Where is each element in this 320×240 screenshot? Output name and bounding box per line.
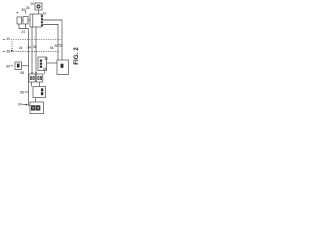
block U6	[57, 60, 69, 75]
block U9	[33, 87, 46, 98]
wire to right rail B	[43, 25, 58, 61]
wire	[35, 77, 36, 79]
wire	[28, 19, 30, 21]
dashed drop wire	[11, 41, 13, 50]
svg-text:34: 34	[27, 45, 31, 49]
wire	[25, 24, 27, 29]
pin 4	[41, 25, 43, 27]
text glyph	[41, 88, 43, 91]
symbol S1	[17, 64, 20, 68]
text glyph	[40, 66, 42, 68]
wire tick	[25, 91, 29, 93]
pin 1	[41, 15, 43, 17]
svg-text:FIG. 2: FIG. 2	[73, 47, 80, 65]
text glyph	[33, 76, 35, 80]
wire vertical V2	[35, 27, 37, 74]
svg-text:58: 58	[20, 71, 24, 75]
svg-text:24: 24	[21, 30, 25, 34]
node dot	[17, 12, 18, 13]
wire	[31, 82, 33, 87]
block U2	[17, 17, 22, 24]
arrow wire	[23, 104, 27, 106]
block U1 divider	[32, 14, 34, 27]
wire	[19, 24, 29, 29]
svg-text:60: 60	[6, 64, 10, 68]
wire	[39, 82, 41, 87]
wire bus left	[29, 29, 31, 106]
wire vertical V1	[31, 27, 33, 74]
block U5	[38, 57, 47, 71]
text glyph	[40, 60, 42, 62]
svg-text:40: 40	[6, 37, 10, 41]
terminal T2	[3, 51, 5, 53]
svg-text:30: 30	[21, 8, 25, 12]
arrowhead	[31, 72, 33, 74]
block U8	[36, 74, 43, 82]
svg-text:28: 28	[26, 6, 30, 10]
svg-text:38: 38	[6, 50, 10, 54]
svg-text:20: 20	[31, 2, 35, 6]
leader dash	[11, 65, 13, 67]
wire	[44, 71, 46, 75]
wire	[47, 62, 58, 64]
wire	[38, 10, 40, 14]
svg-text:44: 44	[19, 46, 23, 50]
block U10	[30, 102, 44, 114]
arrowhead	[26, 104, 28, 106]
svg-text:50: 50	[55, 44, 59, 48]
text glyph	[41, 92, 43, 95]
svg-text:36: 36	[33, 45, 37, 49]
svg-text:46: 46	[43, 67, 47, 71]
block U3	[23, 17, 28, 25]
svg-text:64: 64	[18, 103, 22, 107]
arrowhead	[11, 50, 13, 52]
dashed line D2	[11, 51, 58, 53]
terminal T1	[3, 38, 5, 40]
svg-text:56: 56	[20, 91, 24, 95]
text glyph	[38, 76, 40, 80]
block U7	[29, 74, 35, 82]
svg-text:22: 22	[43, 12, 47, 16]
svg-text:54: 54	[50, 46, 54, 50]
wire	[25, 10, 27, 14]
text glyph	[40, 63, 42, 65]
arrowhead	[35, 72, 37, 74]
sub-block B2	[36, 106, 39, 110]
block U4	[15, 62, 22, 70]
sub-block B1	[32, 106, 35, 110]
wire	[35, 98, 37, 103]
microphone M1	[35, 3, 42, 10]
wire	[22, 65, 29, 67]
svg-text:52: 52	[59, 43, 63, 47]
wire to right rail A	[43, 20, 62, 60]
text glyph	[40, 76, 42, 80]
wire	[22, 19, 23, 21]
block U1	[30, 14, 42, 27]
pin 3	[41, 21, 43, 23]
svg-text:42: 42	[44, 57, 48, 61]
pin 2	[41, 18, 43, 20]
symbol S2	[61, 64, 64, 68]
text glyph	[30, 76, 32, 80]
dashed line D1	[11, 38, 62, 40]
